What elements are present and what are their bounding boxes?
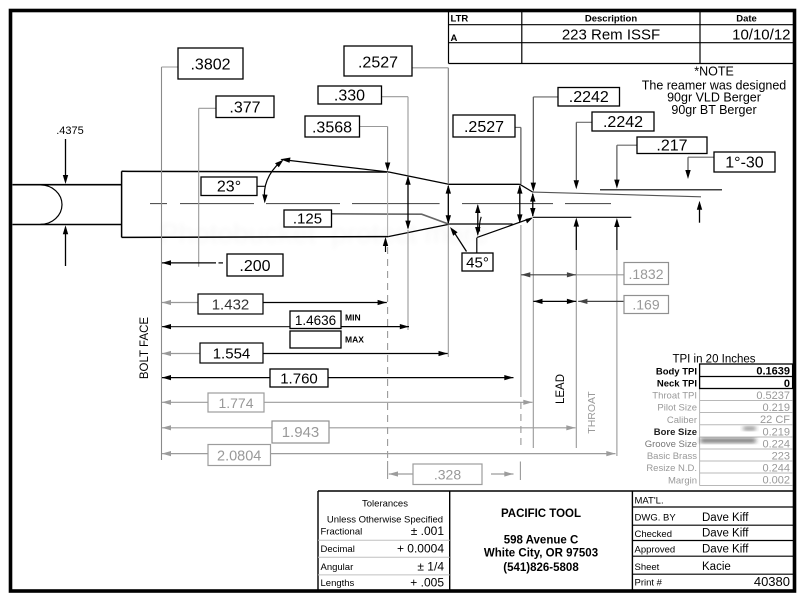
- neck end diameter arrows x=519.8: [517, 185, 522, 224]
- TPI table grid gray: [700, 389, 793, 486]
- svg-text:1.774: 1.774: [218, 395, 253, 411]
- svg-text:(541)826-5808: (541)826-5808: [503, 562, 579, 574]
- freebore line from .125: [332, 214, 450, 225]
- svg-text:Description: Description: [585, 14, 637, 25]
- svg-text:0.002: 0.002: [762, 475, 790, 487]
- svg-text:45°: 45°: [466, 254, 489, 271]
- extension line x=533.3 from .2242 first: [531, 97, 536, 448]
- dim 1.4636 MIN: [162, 311, 409, 329]
- svg-text:Caliber: Caliber: [667, 415, 697, 426]
- tolerance texts: [321, 499, 445, 590]
- svg-text:Dave Kiff: Dave Kiff: [702, 528, 749, 540]
- svg-text:90gr BT Berger: 90gr BT Berger: [671, 103, 756, 117]
- 1-30 leader arrow: [685, 157, 690, 179]
- svg-text:PACIFIC TOOL: PACIFIC TOOL: [501, 508, 581, 520]
- extension line x=520.9 from .2527 second: [519, 127, 522, 480]
- 45 degree arc: [479, 217, 481, 232]
- pacific tool address: [484, 508, 598, 574]
- revision table header LTR: [451, 14, 757, 25]
- svg-text:+ .005: + .005: [410, 575, 444, 589]
- svg-text:Dave Kiff: Dave Kiff: [702, 512, 749, 524]
- svg-text:± 1/4: ± 1/4: [417, 560, 444, 574]
- svg-text:.3568: .3568: [312, 120, 352, 137]
- throat bottom line: [533, 216, 631, 218]
- svg-text:MIN: MIN: [345, 313, 361, 323]
- THROAT rotated label: [586, 391, 598, 434]
- label box .2242 second: [576, 112, 654, 131]
- svg-text:0.219: 0.219: [762, 402, 790, 414]
- label .4375: [56, 125, 84, 137]
- svg-text:Basic Brass: Basic Brass: [647, 451, 697, 462]
- svg-text:Print #: Print #: [635, 578, 663, 589]
- dim .169: [533, 296, 668, 314]
- revision row A : 223 Rem ISSF : 10/10/12: [451, 27, 791, 45]
- shank outline: [13, 185, 122, 225]
- svg-text:Groove Size: Groove Size: [645, 439, 697, 450]
- svg-text:22 CF: 22 CF: [760, 414, 790, 426]
- dim .328 gray: [389, 464, 514, 485]
- svg-text:Margin: Margin: [668, 475, 697, 486]
- empty MAX box: [290, 331, 364, 348]
- 23 degree arc with arrows: [262, 160, 283, 204]
- TPI table black cells rows 1-2: [700, 364, 793, 389]
- svg-text:LEAD: LEAD: [555, 374, 567, 404]
- svg-text:.200: .200: [239, 258, 270, 275]
- extension line x=387.6 from .3568: [383, 127, 391, 480]
- vertical double arrow x=477.8 centerline to 45 line: [475, 204, 480, 236]
- svg-text:40380: 40380: [754, 574, 790, 589]
- svg-text:0.244: 0.244: [762, 462, 790, 474]
- label box .2527 second: [453, 115, 521, 137]
- svg-text:1.943: 1.943: [282, 424, 320, 441]
- dim 2.0804 gray: [162, 445, 616, 466]
- svg-text:White City, OR 97503: White City, OR 97503: [484, 548, 598, 560]
- svg-text:0: 0: [784, 378, 790, 390]
- svg-text:.217: .217: [656, 137, 687, 154]
- extension line x=408 from .330: [407, 97, 409, 330]
- svg-text:Approved: Approved: [635, 545, 676, 556]
- 45 degree corner line: [477, 218, 533, 238]
- label box .3802: [162, 48, 244, 79]
- svg-text:Neck TPI: Neck TPI: [657, 379, 697, 390]
- label box .2527 first: [344, 46, 448, 76]
- svg-text:BOLT FACE: BOLT FACE: [139, 317, 151, 380]
- svg-text:1.432: 1.432: [212, 297, 250, 314]
- datum extension line at bolt face x=161.5: [161, 67, 163, 460]
- dim 1.774 gray: [162, 393, 533, 412]
- svg-text:Throat TPI: Throat TPI: [652, 391, 697, 402]
- shoulder bottom line: [388, 224, 449, 236]
- svg-text:1.554: 1.554: [213, 346, 251, 363]
- neck start diameter arrows x=448.3: [446, 185, 451, 225]
- title block outline: [318, 491, 793, 590]
- svg-text:223: 223: [772, 450, 790, 462]
- svg-text:Resize N.D.: Resize N.D.: [646, 463, 697, 474]
- svg-text:.330: .330: [334, 88, 365, 105]
- svg-text:DWG. BY: DWG. BY: [635, 513, 677, 524]
- svg-text:1°-30: 1°-30: [725, 155, 764, 172]
- .4375 bottom arrow: [63, 225, 68, 266]
- label box 1-30: [688, 152, 775, 172]
- neck top line: [449, 183, 520, 185]
- matl column values: [702, 512, 790, 589]
- label box .125: [284, 210, 332, 228]
- svg-text:Angular: Angular: [321, 562, 354, 573]
- svg-text:.328: .328: [434, 467, 461, 483]
- svg-text:10/10/12: 10/10/12: [732, 27, 790, 44]
- label box .217: [617, 137, 707, 154]
- svg-text:0.224: 0.224: [762, 438, 790, 450]
- svg-text:.377: .377: [229, 100, 260, 117]
- svg-text:Tolerances: Tolerances: [362, 499, 408, 510]
- extension line x=616.9 from .217: [614, 145, 619, 456]
- shank rounded cap: [41, 185, 63, 224]
- throat end up arrow x=699: [697, 201, 702, 223]
- extension line x=576.3 from .2242 second: [574, 122, 579, 448]
- svg-text:223 Rem ISSF: 223 Rem ISSF: [562, 27, 660, 44]
- dim .200: [162, 254, 283, 276]
- svg-text:0.5237: 0.5237: [756, 390, 790, 402]
- label box .3568: [305, 116, 388, 137]
- svg-text:Sheet: Sheet: [635, 562, 660, 573]
- .4375 top arrow: [63, 139, 68, 184]
- watermark ghost: [160, 218, 488, 249]
- throat start diameter arrows x=532.8: [530, 193, 535, 217]
- svg-text:THROAT: THROAT: [586, 391, 598, 434]
- LEAD rotated label: [555, 374, 567, 404]
- svg-text:598 Avenue C: 598 Avenue C: [504, 535, 579, 547]
- svg-text:1.760: 1.760: [280, 371, 318, 388]
- svg-text:A: A: [451, 33, 458, 44]
- neck bottom line: [449, 223, 512, 225]
- shoulder angle extension line with arrowhead: [280, 158, 389, 173]
- throat top taper line: [533, 192, 701, 197]
- extension line x=448.3 from .2527: [447, 68, 449, 357]
- diameter arrows at x=408 for .330: [405, 176, 410, 230]
- 23 box connector: [257, 185, 265, 187]
- svg-text:± .001: ± .001: [411, 524, 445, 538]
- svg-text:MAX: MAX: [345, 335, 364, 345]
- svg-text:.4375: .4375: [56, 125, 84, 137]
- dim 1.554: [162, 343, 448, 363]
- neck end taper line: [520, 184, 533, 192]
- svg-text:LTR: LTR: [451, 14, 469, 25]
- svg-text:2.0804: 2.0804: [217, 449, 261, 465]
- revision table grid: [449, 12, 794, 64]
- body outline: [122, 171, 389, 237]
- matl column row lines: [632, 507, 793, 574]
- dim 1.760: [162, 369, 514, 388]
- svg-text:Pilot Size: Pilot Size: [657, 403, 697, 414]
- tolerance gray row lines: [318, 540, 450, 575]
- svg-text:Decimal: Decimal: [321, 544, 355, 555]
- svg-text:23°: 23°: [217, 179, 241, 196]
- shoulder top line: [389, 172, 449, 184]
- svg-text:0.1639: 0.1639: [756, 366, 790, 378]
- label box .377: [199, 96, 274, 118]
- svg-text:*NOTE: *NOTE: [694, 65, 734, 79]
- TPI watermark smudges: [700, 427, 756, 442]
- svg-text:Lengths: Lengths: [321, 578, 355, 589]
- dim 1.432: [162, 294, 387, 314]
- svg-text:+ 0.0004: + 0.0004: [397, 541, 444, 555]
- label box 23 deg: [201, 177, 257, 196]
- svg-text:MAT'L.: MAT'L.: [635, 496, 664, 507]
- centerline: [150, 203, 611, 205]
- label box .330: [318, 86, 408, 105]
- svg-text:.125: .125: [293, 211, 322, 228]
- svg-text:.2242: .2242: [603, 114, 643, 131]
- svg-text:0.219: 0.219: [762, 426, 790, 438]
- TPI table title: [672, 354, 755, 366]
- svg-text:Checked: Checked: [635, 529, 673, 540]
- label box .2242 first: [533, 88, 619, 107]
- svg-text:Date: Date: [736, 14, 757, 25]
- svg-text:Bore Size: Bore Size: [654, 427, 697, 438]
- svg-text:1.4636: 1.4636: [295, 313, 336, 328]
- svg-text:Dave Kiff: Dave Kiff: [702, 544, 749, 556]
- 45 degree vertical leader: [476, 238, 478, 253]
- svg-text:.3802: .3802: [190, 57, 230, 74]
- dim .1832: [521, 263, 668, 285]
- svg-text:.1832: .1832: [628, 266, 663, 282]
- svg-text:Fractional: Fractional: [321, 527, 363, 538]
- matl column labels: [635, 496, 677, 589]
- label box 45 deg: [462, 253, 493, 271]
- TPI values: [756, 366, 790, 487]
- svg-text:Body TPI: Body TPI: [656, 366, 697, 377]
- BOLT FACE rotated label: [139, 317, 151, 380]
- extension line x=198.7 from .377: [198, 108, 200, 266]
- dim 1.943 gray: [162, 421, 576, 443]
- 45 degree leader to junction: [450, 227, 467, 252]
- svg-text:.2242: .2242: [569, 89, 609, 106]
- svg-text:Kacie: Kacie: [702, 561, 731, 573]
- TPI labels: [645, 366, 698, 486]
- NOTE text block: [642, 65, 787, 118]
- svg-text:.2527: .2527: [464, 119, 504, 136]
- bore line: [600, 189, 722, 191]
- svg-text:.2527: .2527: [358, 55, 398, 72]
- svg-text:.169: .169: [632, 297, 659, 313]
